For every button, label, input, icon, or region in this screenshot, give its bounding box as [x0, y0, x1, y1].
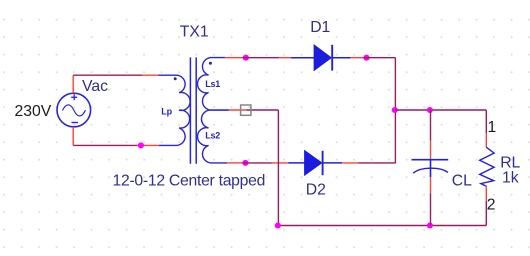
svg-text:12-0-12 Center tapped: 12-0-12 Center tapped [113, 172, 266, 189]
svg-text:Vac: Vac [82, 78, 108, 95]
wire: red stub into D2 anode [272, 162, 289, 164]
AC source plus sign [71, 94, 77, 100]
svg-text:1: 1 [488, 119, 497, 136]
wire: source top stub (red) [72, 75, 74, 93]
junction dot capacitor bottom [427, 222, 433, 228]
wire: D2 cathode red stub [342, 162, 358, 164]
junction dot secondary top [243, 55, 249, 61]
wire: center tap to corner (dark red) [246, 109, 278, 111]
wire: D1 cathode red stub [350, 57, 363, 59]
svg-text:2: 2 [487, 197, 496, 214]
svg-text:230V: 230V [15, 103, 52, 120]
transformer TX1 core [190, 57, 196, 163]
wire: secondary top red stub [225, 57, 242, 59]
transformer primary winding Lp [158, 75, 190, 145]
svg-text:Lp: Lp [161, 106, 172, 116]
svg-text:D1: D1 [310, 19, 330, 36]
wire: bottom rail (dark red) [278, 225, 486, 227]
wire: Ls2 bottom red stub [227, 162, 243, 164]
svg-text:CL: CL [452, 172, 472, 189]
junction dot Ls2 bottom [242, 160, 248, 166]
AC source minus sign [72, 122, 79, 124]
AC source V1 circle [57, 93, 91, 127]
resistor RL [480, 110, 494, 226]
wire: cathode bus vertical (dark red) [394, 58, 396, 164]
capacitor CL [412, 110, 449, 226]
transformer secondary winding Ls2 [197, 110, 228, 163]
secondary phase dot [209, 62, 212, 65]
svg-text:D2: D2 [306, 182, 326, 199]
wire: Ls2 bottom to D2 (dark red) [243, 162, 272, 164]
wire: D2 out to cathode bus (dark red) [359, 162, 396, 164]
wire: source bottom stub (red) [72, 127, 74, 146]
wire: D1 out to corner (dark red) [364, 57, 396, 59]
junction dot D1 out [363, 55, 369, 61]
junction dot cathode bus [392, 107, 398, 113]
svg-text:TX1: TX1 [180, 23, 209, 40]
primary phase dot [174, 77, 177, 80]
diode D1 [291, 45, 350, 71]
wire: center tap red stub [229, 109, 247, 111]
junction dot bottom-left [138, 142, 144, 148]
wire: secondary top to D1 (dark red) [243, 57, 280, 59]
wire: bottom-left horizontal (dark red) [73, 144, 137, 146]
junction dot bottom rail left corner [275, 222, 281, 228]
junction dot capacitor top [427, 107, 433, 113]
diode D2 [288, 151, 342, 175]
wire: red stub into primary top [142, 74, 158, 76]
AC source sine wave [62, 105, 85, 116]
svg-text:Ls1: Ls1 [205, 79, 220, 89]
wire: red stub into primary bottom [137, 144, 159, 146]
svg-text:1k: 1k [502, 169, 519, 186]
wire: top-left horizontal (dark red) [73, 74, 142, 76]
svg-text:Ls2: Ls2 [205, 131, 220, 141]
transformer secondary winding Ls1 [197, 58, 228, 111]
wire: center tap vertical down to bottom rail (dark red) [277, 110, 279, 226]
wire: positive rail horizontal (dark red) [395, 109, 486, 111]
center tap probe square [241, 105, 251, 115]
wire: red stub into D1 anode [279, 57, 291, 59]
